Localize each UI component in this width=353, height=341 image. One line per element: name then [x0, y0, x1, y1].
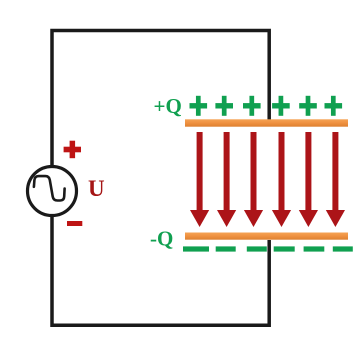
svg-text:-Q: -Q — [150, 227, 173, 251]
svg-text:+Q: +Q — [154, 94, 182, 118]
svg-text:U: U — [88, 176, 105, 201]
